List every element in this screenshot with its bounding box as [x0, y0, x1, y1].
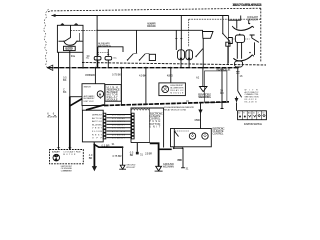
svg-text:W10 LEFT: W10 LEFT	[126, 167, 136, 169]
svg-text:83-518 G: 83-518 G	[245, 101, 257, 103]
fan motor symbol	[53, 154, 60, 161]
pressure switch flag	[203, 32, 214, 39]
wire: fuse legs to bus	[98, 60, 109, 68]
relay coil arc	[64, 42, 77, 46]
wire: dashed link to sensor assembly	[189, 18, 261, 20]
svg-text:DEFROST: DEFROST	[92, 115, 103, 117]
ground G3 open triangle	[156, 166, 162, 171]
svg-text:UNIT K9/2: UNIT K9/2	[84, 101, 95, 103]
ladder rung 5	[107, 127, 132, 129]
svg-text:15: 15	[253, 113, 255, 115]
wire: top solid feed line	[52, 15, 229, 17]
svg-text:0.5 GN/WT: 0.5 GN/WT	[112, 124, 126, 126]
ECU dashed box	[205, 71, 227, 103]
dashed link inside	[175, 130, 189, 132]
switch S1 contacts	[127, 54, 134, 61]
wire: drop x=58.5 to fan box	[58, 68, 60, 150]
heavy ground wire from push button unit	[150, 143, 159, 166]
terminal box	[149, 54, 155, 60]
svg-text:MODULE: MODULE	[170, 92, 184, 94]
svg-text:BI-LEVEL: BI-LEVEL	[92, 124, 103, 126]
note text block right	[245, 89, 260, 103]
ground bus 31 (heavy)	[86, 105, 104, 110]
motor symbol	[97, 91, 103, 97]
svg-text:RD: RD	[220, 91, 224, 95]
wire: vertical x=176.3	[175, 30, 177, 50]
svg-text:0.75 BK: 0.75 BK	[112, 72, 121, 76]
fuse F6	[186, 50, 193, 60]
connector bump pin 2	[75, 23, 78, 25]
ground wire heavy branch right	[94, 144, 122, 147]
wire: vertical feed x=97	[96, 16, 98, 68]
cell glyphs	[239, 116, 246, 118]
wire: top dashed bus	[48, 8, 261, 12]
connector bump pin 1	[61, 23, 64, 25]
ladder rung 3	[107, 120, 132, 122]
sensor label	[247, 15, 258, 22]
svg-text:1986 AC POWER/AUX FAN 30-08: 1986 AC POWER/AUX FAN 30-08	[232, 3, 261, 7]
wire: branch into regulator	[70, 96, 82, 98]
ladder rung 1	[107, 114, 132, 116]
auxiliary fan relay K9 box	[57, 25, 83, 52]
unit boundary bottom edge	[82, 63, 266, 66]
push button unit connector scallops	[132, 109, 149, 110]
svg-text:OFF: OFF	[92, 138, 103, 140]
svg-text:4.0 BK: 4.0 BK	[139, 73, 146, 77]
svg-text:30: 30	[238, 113, 240, 115]
svg-text:4.0 RD: 4.0 RD	[167, 73, 173, 77]
svg-text:CONTROL: CONTROL	[213, 132, 225, 136]
switch function box	[82, 110, 103, 142]
auxiliary fan motor box	[50, 150, 84, 164]
svg-text:COMPARTMNT: COMPARTMNT	[61, 169, 73, 172]
svg-text:BRN: BRN	[53, 116, 58, 118]
svg-text:FAN 100C: FAN 100C	[147, 24, 156, 28]
label 30	[87, 54, 90, 58]
wire: legs to fuses with arrows	[98, 47, 109, 55]
wire: drop x=237.8 ignition feed	[238, 68, 242, 98]
svg-text:AUXILIARY: AUXILIARY	[52, 151, 61, 154]
wire: push button ground stub	[136, 143, 138, 152]
dashed links	[232, 38, 249, 40]
box label	[213, 126, 225, 135]
module label box	[105, 85, 121, 102]
ground arrow	[92, 166, 97, 171]
wire: mid horizontal line y=30	[97, 30, 202, 31]
ground wire heavy to arrow	[93, 144, 95, 167]
heavy ground diagonal	[70, 99, 82, 106]
switch inside	[174, 129, 178, 147]
switch S4	[250, 35, 259, 42]
motor M1	[189, 133, 195, 139]
svg-text:A2: A2	[196, 75, 200, 79]
svg-text:AUTO HI: AUTO HI	[92, 117, 102, 120]
svg-text:SWITCH: SWITCH	[84, 86, 92, 88]
bimetal arc upper	[233, 26, 252, 30]
wire: drop x=170.8	[170, 68, 172, 83]
wire: dashed control from relay	[71, 29, 98, 31]
svg-text:0.5 GN: 0.5 GN	[112, 131, 125, 133]
wires below motor box	[174, 147, 183, 168]
wire gauge labels	[47, 112, 57, 119]
wire: function box bottom junction	[93, 144, 95, 146]
svg-text:MODULE: MODULE	[107, 97, 118, 101]
svg-text:AUX FAN: AUX FAN	[65, 46, 73, 50]
ground G2 open triangle	[120, 165, 125, 169]
wire: switch link L	[98, 47, 123, 52]
fuse F4	[105, 56, 112, 60]
svg-text:W15 MAIN: W15 MAIN	[163, 165, 174, 169]
svg-text:0.5 GN/BL: 0.5 GN/BL	[112, 128, 126, 130]
wire: drop x=202.9 with off-page arrow	[202, 68, 204, 87]
svg-text:0.5 BK/WT: 0.5 BK/WT	[112, 138, 126, 140]
svg-text:30a: 30a	[71, 54, 76, 58]
svg-text:50: 50	[262, 113, 264, 115]
wire: sensor stubs	[237, 20, 249, 28]
fuse F9 partial	[228, 38, 232, 44]
wire: drop to ground G2	[122, 147, 124, 165]
svg-text:FAN SWITCH: FAN SWITCH	[98, 44, 111, 48]
label 30a	[71, 54, 76, 58]
bus left arrow	[47, 65, 53, 70]
svg-text:0.5 RD: 0.5 RD	[195, 118, 201, 122]
wire: relay center leg to bus	[69, 51, 71, 68]
relay coil box	[64, 46, 76, 50]
svg-text:FLOOR: FLOOR	[92, 131, 102, 133]
svg-text:0.5 BR: 0.5 BR	[177, 158, 182, 162]
wire: drop x=69.8 to fan box	[69, 68, 71, 97]
svg-text:0.5 BK/GN: 0.5 BK/GN	[112, 134, 125, 136]
switch S2	[223, 16, 230, 42]
wire: drop x=121.1	[120, 68, 122, 105]
assembly left edge	[227, 20, 229, 63]
svg-text:0.5 GN/BK: 0.5 GN/BK	[112, 118, 126, 120]
wire: flag leg to bus	[202, 38, 204, 67]
switch S3	[196, 49, 203, 57]
ladder rung 8	[107, 137, 132, 139]
relay contact line right	[77, 40, 83, 42]
svg-text:COOLANT FAN: COOLANT FAN	[63, 151, 81, 154]
box edge link	[81, 106, 83, 111]
svg-text:0.5 BK/RD: 0.5 BK/RD	[85, 73, 95, 77]
svg-text:2.5 BR: 2.5 BR	[145, 151, 152, 155]
arrowhead left	[52, 14, 56, 17]
svg-text:BLOWER RLY: BLOWER RLY	[84, 98, 96, 100]
wire labels	[63, 76, 67, 94]
svg-text:0.5 GN/RD: 0.5 GN/RD	[112, 115, 125, 117]
relay inner contact line	[79, 33, 81, 41]
wire: feed with arrow into motor box	[200, 103, 202, 129]
wire: dashed vertical x=188.7	[188, 19, 190, 47]
fuse F3	[94, 56, 101, 60]
wire: ignition feed to box	[236, 103, 238, 111]
note below fan box	[61, 166, 73, 172]
blower motor relay K2 box	[159, 83, 186, 96]
wire: vertical feed x=181.3	[180, 16, 182, 50]
blower regulator box	[82, 84, 105, 106]
fuse F10	[235, 61, 243, 67]
fuse F8	[235, 35, 244, 42]
wire: drop x=222	[221, 68, 224, 109]
svg-text:RELAY MODULE: RELAY MODULE	[216, 68, 230, 72]
aux fan switch label	[98, 42, 111, 48]
title text	[232, 3, 261, 7]
ladder rung 7	[107, 133, 132, 135]
svg-text:BR: BR	[130, 153, 134, 157]
svg-text:MOTOR: MOTOR	[63, 154, 76, 156]
ladder rung 6	[107, 130, 132, 132]
motor M2	[202, 133, 208, 139]
bus 30 (main dashed bus)	[48, 67, 240, 69]
wire: assembly legs	[237, 42, 254, 67]
wire: drop x=145.9	[145, 68, 147, 105]
ladder rung 2	[107, 117, 132, 119]
svg-text:SPEED CONTROL: SPEED CONTROL	[198, 95, 212, 99]
wire: fuse legs to bus	[181, 60, 189, 68]
svg-text:0.75 BR: 0.75 BR	[113, 154, 122, 158]
svg-text:IGNITION SWITCH: IGNITION SWITCH	[244, 122, 262, 126]
fuse labels	[86, 58, 118, 60]
ignition switch box	[238, 111, 267, 120]
svg-text:BK: BK	[63, 78, 67, 82]
aux fan label mid	[147, 22, 156, 28]
wire: drop x=95.4 to regulator	[94, 68, 96, 84]
relay switch arm	[65, 25, 71, 41]
temperature sensor box	[229, 16, 241, 21]
svg-text:BK: BK	[63, 90, 67, 94]
wire: relay right leg to bus	[82, 52, 84, 67]
wire: right dashed border	[260, 8, 262, 62]
bimetal arc lower	[233, 55, 252, 61]
svg-text:0.5 GN/YL: 0.5 GN/YL	[112, 121, 126, 123]
svg-text:BR: BR	[89, 156, 93, 160]
junction dots on bus	[58, 67, 239, 69]
dashed link between fuse feeds	[98, 52, 109, 54]
wire: relay left leg to bus	[58, 52, 60, 67]
svg-text:0.5 BR: 0.5 BR	[102, 144, 110, 148]
fuse F5	[178, 50, 185, 60]
svg-text:AUTO LO: AUTO LO	[92, 120, 102, 123]
ladder rung 4	[107, 123, 132, 125]
climate control motor box	[171, 129, 212, 147]
wire: vertical x=136.5	[136, 30, 138, 53]
relay contact line left	[59, 40, 65, 42]
push button control unit box	[131, 108, 164, 148]
torn paper edge	[44, 9, 49, 68]
svg-text:RELAY MODULE CONN: RELAY MODULE CONN	[164, 108, 187, 111]
